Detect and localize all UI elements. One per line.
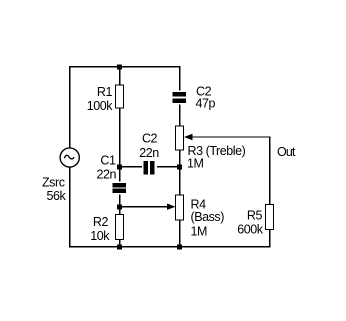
R3 wiper arrow — [184, 134, 193, 140]
junction R4 bottom rail — [177, 244, 182, 249]
resistor R5 — [266, 205, 274, 230]
svg-text:1M: 1M — [187, 157, 204, 171]
wire bottom horizontal — [69, 246, 270, 247]
junction R3 bottom node — [177, 164, 182, 169]
junction R2 bottom rail — [117, 244, 122, 249]
svg-text:(Bass): (Bass) — [191, 210, 225, 224]
svg-text:47p: 47p — [196, 97, 216, 111]
svg-text:R5: R5 — [247, 209, 263, 223]
svg-text:22n: 22n — [96, 168, 116, 182]
resistor R2 — [116, 215, 124, 240]
svg-text:Out: Out — [277, 145, 296, 159]
junction C1 bottom / R4 wiper node — [117, 204, 122, 209]
resistor R1 — [116, 85, 124, 108]
wire right branch vertical (C2/R3/R4) — [179, 66, 180, 247]
wire top horizontal — [69, 66, 180, 67]
svg-text:600k: 600k — [237, 223, 264, 237]
wire middle branch vertical (R1/C1/R2) — [119, 66, 120, 247]
potentiometer R3 (Treble) — [176, 126, 184, 150]
wire right output vertical (R5 branch) — [269, 136, 270, 247]
svg-text:10k: 10k — [90, 229, 110, 243]
capacitor C1 22n — [112, 182, 128, 195]
capacitor C2 22n (series cap to treble pot) — [142, 160, 157, 176]
source Zsrc — [60, 148, 79, 167]
potentiometer R4 (Bass) — [176, 195, 184, 220]
wire R3 wiper to Out horizontal — [191, 136, 270, 137]
svg-text:Zsrc: Zsrc — [42, 176, 65, 190]
capacitor C2 47p — [172, 91, 187, 105]
wire left vertical — [69, 66, 70, 247]
svg-text:100k: 100k — [87, 99, 114, 113]
svg-text:C1: C1 — [100, 154, 116, 168]
svg-text:22n: 22n — [139, 146, 159, 160]
R4 wiper arrow — [167, 204, 176, 210]
junction C1 top node — [117, 164, 122, 169]
svg-text:R1: R1 — [97, 85, 113, 99]
wire R4 wiper horizontal — [119, 206, 169, 207]
wire C2 22n horizontal (node between C1 and R3) — [119, 166, 180, 167]
svg-text:R2: R2 — [93, 215, 109, 229]
svg-text:C2: C2 — [142, 132, 158, 146]
svg-text:1M: 1M — [191, 225, 208, 239]
svg-text:56k: 56k — [47, 189, 67, 203]
junction top (R1 to top rail) — [117, 64, 122, 69]
